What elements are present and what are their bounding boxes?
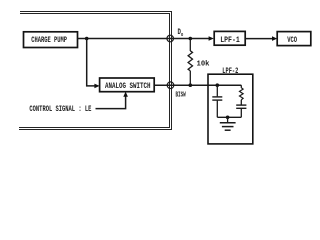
svg-text:VCO: VCO [287, 36, 297, 45]
block CHARGE PUMP [24, 32, 78, 48]
capacitor C2 (right branch) [236, 100, 246, 118]
node junction dot at C1 tap [216, 83, 220, 87]
chip boundary frame outer line [19, 11, 172, 130]
svg-text:BISW: BISW [176, 91, 187, 99]
chip boundary frame inner line [19, 13, 170, 128]
svg-text:LPF-1: LPF-1 [220, 36, 240, 45]
block LPF-2 container box [208, 74, 253, 144]
wire bottom bus in LPF-2 [217, 116, 241, 118]
arrowhead into VCO [272, 36, 277, 41]
terminal BISW (circle on frame) [167, 82, 174, 89]
wire charge pump output to LPF-1 [78, 38, 210, 40]
resistor R2 (right branch) [240, 85, 244, 100]
terminal Do (circle on frame) [167, 35, 174, 42]
resistor 10k [188, 39, 192, 86]
svg-text:10k: 10k [197, 60, 211, 68]
wire analog switch output to LPF-2 [154, 84, 241, 86]
arrowhead into LPF-1 [209, 36, 214, 41]
wire LPF-1 to VCO [245, 38, 273, 40]
svg-text:CONTROL SIGNAL : LE: CONTROL SIGNAL : LE [29, 105, 91, 114]
wire branch down from junction to analog switch [87, 39, 96, 86]
capacitor C1 (left branch) [212, 85, 222, 117]
arrowhead into ANALOG SWITCH bottom [123, 92, 128, 97]
node junction dot at ground tap [226, 116, 230, 120]
svg-text:CHARGE PUMP: CHARGE PUMP [31, 36, 67, 45]
arrowhead into ANALOG SWITCH left [94, 84, 99, 89]
node junction dot after charge pump [85, 37, 89, 41]
svg-text:ANALOG SWITCH: ANALOG SWITCH [105, 82, 151, 91]
block VCO [277, 32, 311, 46]
ground [220, 117, 236, 130]
label Do [178, 28, 184, 38]
node junction dot at 10k tap [189, 37, 193, 41]
wire control signal LE to analog switch [96, 96, 126, 109]
block LPF-1 [214, 31, 245, 45]
block ANALOG SWITCH [100, 78, 155, 92]
node junction dot resistor bottom [189, 83, 193, 87]
